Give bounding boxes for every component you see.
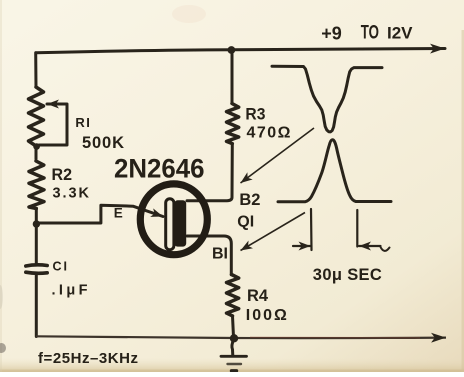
svg-text:QI: QI [237,214,254,231]
svg-text:3.3K: 3.3K [53,186,90,202]
svg-text:470Ω: 470Ω [247,125,291,142]
svg-text:E: E [114,206,123,221]
svg-text:+9: +9 [321,23,342,43]
svg-text:CI: CI [53,259,70,273]
svg-text:B2: B2 [239,191,260,209]
svg-text:I00Ω: I00Ω [246,307,287,324]
svg-text:RI: RI [75,115,91,130]
svg-text:R3: R3 [245,104,265,123]
svg-text:I2V: I2V [387,24,413,43]
svg-text:TO: TO [361,23,379,44]
svg-text:BI: BI [212,246,228,263]
svg-text:2N2646: 2N2646 [114,154,205,184]
svg-text:f=25Hz–3KHz: f=25Hz–3KHz [38,350,138,367]
svg-text:R2: R2 [52,165,73,184]
svg-text:R4: R4 [247,286,269,305]
svg-text:500K: 500K [82,134,124,152]
svg-text:30μ SEC: 30μ SEC [313,266,382,284]
